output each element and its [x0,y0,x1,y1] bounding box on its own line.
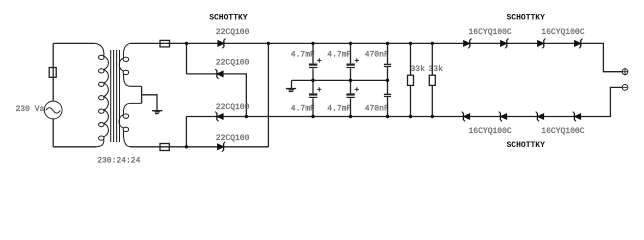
diode D12 [573,112,581,122]
wire row2 [187,74,247,117]
ground (mid rail) [286,88,296,90]
wire primary turn arc 1 [104,56,109,69]
diode D1 [218,39,226,49]
wire secondary A turn arc [119,58,123,71]
wire primary bottom [53,146,96,148]
resistor R2 [431,43,433,116]
transformer T1 primary turn 4 [99,96,105,100]
wire bottom rail [186,87,622,116]
node row4 junction [185,145,188,148]
svg-text:16CYQ100C: 16CYQ100C [469,28,512,37]
node mid rail C5 [386,79,389,82]
node bus top junction [267,42,270,45]
capacitor C3 [350,43,352,80]
diode D8 [575,39,583,49]
svg-text:33k: 33k [429,65,444,74]
node top rail R2 [431,42,434,45]
svg-text:230:24:24: 230:24:24 [97,156,140,165]
transformer T1 primary turn 1 [99,55,105,59]
wire mid rail ground stub [291,80,293,88]
wire row1 to row2 vertical [186,43,188,74]
node mid rail C3 [349,79,352,82]
svg-text:22CQ100: 22CQ100 [216,134,250,143]
node bottom rail R2 [431,115,434,118]
node bottom rail C4 [349,115,352,118]
transformer T1 primary turn 2 [99,69,105,73]
svg-text:22CQ100: 22CQ100 [216,103,250,112]
svg-text:16CYQ100C: 16CYQ100C [541,28,584,37]
diode D6 [501,39,509,49]
transformer T1 primary turn 7 [99,136,105,140]
source V1 circle [44,101,62,119]
wire primary top [53,42,94,44]
transformer T1 secondary B turn 2 [123,127,128,131]
diode D10 [499,112,507,122]
svg-text:16CYQ100C: 16CYQ100C [469,127,512,136]
diode D4 [218,142,226,152]
resistor R1 [410,43,412,116]
node top rail C3 [349,42,352,45]
svg-text:4.7mF: 4.7mF [327,50,351,59]
node bottom rail C2 [311,115,314,118]
node top rail C5 [386,42,389,45]
transformer T1 secondary B exit curve [123,131,130,147]
wire primary turn arc 5 [104,110,109,123]
node bottom rail R1 [409,115,412,118]
transformer T1 primary turn 6 [99,123,105,127]
transformer T1 secondary B entry curve [123,103,141,114]
svg-text:SCHOTTKY: SCHOTTKY [209,14,248,23]
node mid rail C1 [311,79,314,82]
wire primary turn arc 6 [104,123,109,136]
svg-text:4.7mF: 4.7mF [291,50,315,59]
wire row3 to row4 vertical [185,117,187,147]
transformer T1 primary turn 5 [99,109,105,113]
diode D5 [464,39,472,49]
transformer T1 secondary A entry curve [123,43,130,58]
svg-text:SCHOTTKY: SCHOTTKY [507,141,546,150]
fuse F2 (top) [160,40,170,47]
diode D3 [215,112,223,122]
wire top rail [130,43,622,71]
svg-text:SCHOTTKY: SCHOTTKY [507,14,546,23]
wire left branch vertical [52,43,54,146]
node row1-left junction [185,42,188,45]
terminal + output [622,69,628,75]
fuse F3 (bottom) [160,144,169,151]
svg-text:470nF: 470nF [365,104,389,113]
terminal - output [622,85,628,91]
wire primary turn arc 4 [104,96,109,109]
node top rail R1 [409,42,412,45]
node bottom rail C6 [386,115,389,118]
svg-text:22CQ100: 22CQ100 [216,59,250,68]
transformer T1 secondary A turn 1 [123,57,128,61]
wire primary turn arc 2 [104,70,109,83]
diode D9 [462,112,470,122]
wire row4 [131,146,269,148]
svg-text:4.7mF: 4.7mF [291,104,315,113]
wire primary turn arc 3 [104,83,109,96]
transformer T1 secondary A exit curve [123,74,141,86]
fuse F1 (left vertical) [49,68,56,78]
wire secondary B turn arc [119,115,124,128]
transformer T1 primary entry curve [95,43,104,56]
transformer T1 core [111,50,120,142]
capacitor C2 [312,80,314,116]
wire ground rail (mid) [292,79,388,81]
capacitor C5 [387,43,389,80]
junction dots [185,42,434,149]
svg-text:22CQ100: 22CQ100 [216,28,250,37]
transformer T1 secondary A turn 2 [123,70,128,74]
capacitor C6 [387,80,389,116]
svg-text:4.7mF: 4.7mF [327,104,351,113]
diode D2 [215,69,223,79]
node bottom rail row2 [245,115,248,118]
node top rail C1 [311,42,314,45]
transformer T1 center tap bar [141,86,143,103]
source V1 sine [46,108,60,113]
wire bus row4 to top rail [267,43,269,146]
diode D11 [536,112,544,122]
svg-text:33k: 33k [411,65,426,74]
transformer T1 primary exit curve [96,139,104,147]
diode D7 [538,39,546,49]
wire center tap to ground [142,95,157,110]
capacitor C1 [312,43,314,80]
svg-text:16CYQ100C: 16CYQ100C [541,127,584,136]
ground (transformer center tap) [152,110,162,112]
transformer T1 primary turn 3 [99,82,105,86]
transformer T1 secondary B turn 1 [123,114,128,118]
capacitor C4 [350,80,352,116]
svg-text:470nF: 470nF [365,50,389,59]
